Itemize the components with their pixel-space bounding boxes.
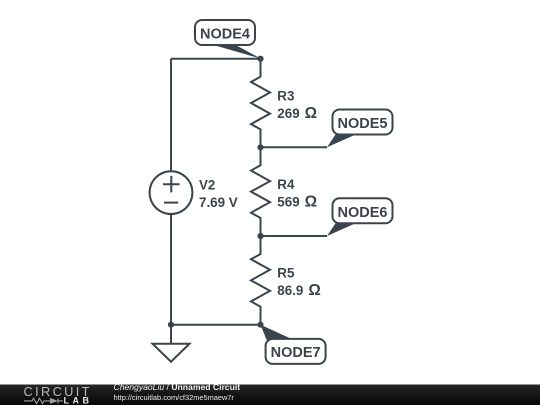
wire to NODE6 [261,235,328,237]
flag pointer NODE7 [261,325,294,340]
flag pointer NODE4 [212,45,261,59]
wire bottom horizontal [171,324,261,326]
resistor R5 [251,236,270,325]
wire left rail upper [170,59,172,171]
logo resistor-diode glyph [24,398,63,403]
svg-text:ChengyaoLiu / Unnamed Circuit: ChengyaoLiu / Unnamed Circuit [114,382,241,392]
node flag box NODE6 [333,198,393,223]
wire left rail lower [170,215,172,325]
junction node B (R3/R4) [257,144,263,150]
wire to NODE5 [261,146,328,148]
wire top horizontal [171,58,261,60]
svg-text:7.69 V: 7.69 V [199,195,238,210]
ground symbol [153,344,190,362]
svg-text:NODE5: NODE5 [338,116,388,132]
svg-text:LAB: LAB [64,395,93,405]
junction node A (top of R3) [257,56,263,62]
wire ground stem [170,325,172,344]
flag pointer NODE6 [327,222,359,236]
svg-text:R5: R5 [277,266,295,281]
flag pointer NODE5 [327,133,359,147]
svg-text:R4: R4 [277,177,295,192]
svg-text:V2: V2 [199,177,215,192]
svg-text:R3: R3 [277,88,294,103]
voltage source plus sign [163,176,180,193]
node flag box NODE4 [195,20,255,45]
svg-text:269Ω: 269Ω [277,105,317,122]
node flag box NODE5 [333,110,393,135]
resistor R3 [251,59,270,148]
svg-text:569Ω: 569Ω [277,194,317,211]
junction node C (R4/R5) [257,233,263,239]
node flag box NODE7 [266,339,326,364]
svg-text:http://circuitlab.com/cf32me5m: http://circuitlab.com/cf32me5maew7r [114,393,235,402]
junction node E (ground tap) [168,322,174,328]
svg-text:NODE6: NODE6 [338,205,388,221]
voltage source minus sign [164,202,178,204]
voltage source V2 circle [150,171,193,214]
svg-text:NODE7: NODE7 [271,345,321,361]
svg-text:86.9Ω: 86.9Ω [277,282,321,299]
junction node D (bottom of R5) [257,322,263,328]
resistor R4 [251,147,270,236]
svg-text:NODE4: NODE4 [200,27,250,43]
